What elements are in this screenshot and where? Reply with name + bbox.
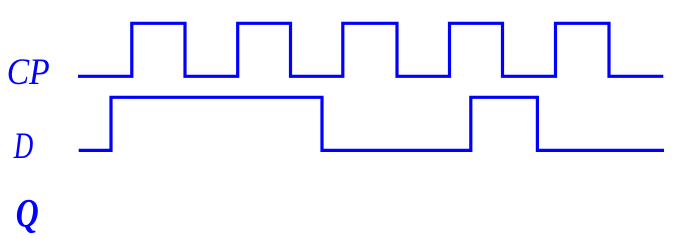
svg-text:CP: CP [7, 52, 50, 93]
svg-text:D: D [13, 126, 33, 167]
svg-text:Q: Q [16, 191, 39, 236]
waveform CP (clock) [78, 23, 663, 76]
waveform D (data) [79, 97, 664, 150]
